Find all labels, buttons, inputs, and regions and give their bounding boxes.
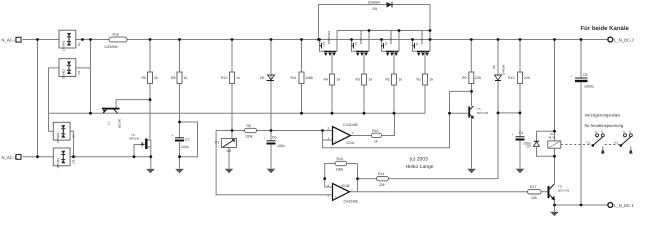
transistor T9 bbox=[129, 133, 151, 149]
resistor R8 bbox=[171, 72, 187, 84]
svg-text:IRF9530A: IRF9530A bbox=[420, 31, 424, 45]
resistor R16 bbox=[105, 33, 128, 49]
wire T8 emitter to bottom rail bbox=[555, 200, 608, 212]
svg-text:100k: 100k bbox=[245, 135, 253, 139]
transistor T2 bbox=[382, 31, 400, 57]
svg-text:D2: D2 bbox=[77, 70, 81, 74]
svg-text:100k: 100k bbox=[306, 76, 314, 80]
capacitor C4 bbox=[512, 131, 531, 146]
diode pair D1 bbox=[59, 30, 81, 51]
svg-text:R3: R3 bbox=[356, 78, 361, 82]
wire IC1B output up bbox=[350, 164, 377, 192]
diode pair D2 bbox=[59, 59, 81, 80]
ground under T8 bbox=[550, 212, 559, 216]
svg-text:1k: 1k bbox=[184, 76, 188, 80]
svg-text:1N5401: 1N5401 bbox=[62, 69, 66, 80]
svg-text:CA3240E: CA3240E bbox=[343, 123, 359, 127]
wire top rail net V+ bbox=[23, 39, 608, 41]
wire relay column bbox=[554, 40, 556, 185]
zener D5 bbox=[260, 75, 275, 81]
svg-text:T1: T1 bbox=[415, 42, 419, 46]
svg-text:2k: 2k bbox=[154, 76, 158, 80]
wire D2 branch bbox=[49, 40, 91, 132]
svg-text:R10: R10 bbox=[372, 129, 378, 133]
wire R9 column top bbox=[470, 40, 472, 73]
svg-text:1N5401: 1N5401 bbox=[56, 132, 60, 143]
resistor R15 bbox=[335, 157, 347, 172]
ground under C6 bbox=[267, 169, 276, 173]
svg-text:BC547B: BC547B bbox=[477, 111, 488, 115]
transistor T3 bbox=[352, 31, 370, 57]
wire T7 collector bbox=[116, 100, 150, 108]
svg-text:+: + bbox=[172, 134, 174, 138]
svg-text:0.05/5W: 0.05/5W bbox=[105, 45, 119, 49]
wire T5 base stub bbox=[450, 112, 469, 114]
svg-text:1k5: 1k5 bbox=[531, 196, 537, 200]
svg-text:T2: T2 bbox=[384, 42, 388, 46]
relay dashed link bbox=[561, 144, 621, 146]
wire reference loop to IC1B bbox=[216, 131, 332, 195]
resistor R5 bbox=[245, 124, 257, 139]
svg-text:R17: R17 bbox=[530, 185, 536, 189]
wire D5 column bbox=[270, 40, 272, 131]
svg-text:IC1B: IC1B bbox=[342, 184, 350, 188]
svg-text:K1: K1 bbox=[587, 141, 591, 145]
resistor R4 bbox=[324, 51, 341, 113]
label delay relay note bbox=[585, 113, 624, 129]
svg-text:R14: R14 bbox=[378, 172, 384, 176]
svg-text:R1: R1 bbox=[417, 78, 422, 82]
wire bypass top bbox=[319, 5, 431, 40]
svg-text:1k: 1k bbox=[430, 78, 434, 82]
svg-text:D7: D7 bbox=[527, 145, 532, 149]
svg-text:D1: D1 bbox=[77, 42, 81, 46]
wire reference net y130 bbox=[216, 130, 332, 132]
terminal N_AC-1 bbox=[2, 155, 22, 160]
transistor T8 bbox=[548, 184, 570, 200]
svg-text:T3: T3 bbox=[354, 42, 358, 46]
terminal N_AC-2 bbox=[2, 37, 22, 42]
svg-text:C7: C7 bbox=[185, 138, 190, 142]
wire C8 column bbox=[580, 40, 582, 206]
wire P1 stub bbox=[229, 131, 232, 169]
svg-text:1M: 1M bbox=[226, 149, 231, 153]
svg-text:40.31: 40.31 bbox=[548, 136, 556, 140]
svg-text:R6: R6 bbox=[142, 76, 147, 80]
label Fuer beide Kanaele bbox=[581, 25, 630, 32]
relay K1 bbox=[548, 132, 561, 148]
svg-text:R11: R11 bbox=[291, 76, 297, 80]
resistor R1 bbox=[417, 51, 434, 85]
diode pair D3 bbox=[53, 122, 75, 156]
relay contact K1.1 bbox=[587, 130, 605, 153]
resistor R10 bbox=[372, 129, 382, 144]
wire R12 column bbox=[231, 40, 233, 131]
svg-text:Verzögerungsrelais: Verzögerungsrelais bbox=[585, 113, 621, 118]
svg-text:Heiko Lange: Heiko Lange bbox=[406, 164, 434, 170]
wire cross link bbox=[498, 112, 520, 114]
svg-text:R5: R5 bbox=[247, 124, 252, 128]
svg-text:R13: R13 bbox=[508, 76, 514, 80]
svg-text:R12: R12 bbox=[221, 76, 227, 80]
wire D7 relay loop bbox=[537, 131, 555, 156]
ground under T5 bbox=[467, 169, 476, 173]
svg-text:IRFD45: IRFD45 bbox=[129, 136, 140, 140]
resistor R17 bbox=[528, 185, 542, 200]
resistor R9 bbox=[462, 72, 481, 84]
svg-text:T4: T4 bbox=[322, 42, 326, 46]
wire D8 column bbox=[389, 40, 499, 179]
terminal L_N_DC-1 bbox=[608, 203, 635, 208]
svg-text:IRF9530A: IRF9530A bbox=[389, 31, 393, 45]
svg-text:1k: 1k bbox=[369, 78, 373, 82]
svg-text:1N4004: 1N4004 bbox=[368, 0, 380, 4]
op-amp IC1A bbox=[328, 123, 359, 145]
transistor T1 bbox=[413, 31, 431, 57]
svg-text:N_AC-2: N_AC-2 bbox=[2, 38, 18, 43]
relay contact K1.2 bbox=[615, 130, 633, 153]
wire bottom-left rail bbox=[23, 156, 151, 158]
diode D9 bbox=[368, 0, 393, 11]
svg-text:+: + bbox=[571, 74, 573, 78]
svg-text:1k: 1k bbox=[337, 78, 341, 82]
capacitor C7 bbox=[172, 134, 190, 150]
svg-text:-: - bbox=[335, 186, 336, 190]
wire R8 column bbox=[179, 40, 181, 138]
svg-text:T7: T7 bbox=[108, 121, 112, 125]
wire R9 to T5 bbox=[450, 84, 472, 169]
svg-text:+: + bbox=[335, 195, 337, 199]
svg-text:D9: D9 bbox=[373, 7, 378, 11]
transistor T4 bbox=[320, 31, 338, 57]
wire C7 loop bbox=[180, 122, 198, 169]
svg-text:C8: C8 bbox=[583, 73, 588, 77]
wire T8 base bbox=[358, 191, 549, 193]
diode D7 bbox=[527, 141, 540, 148]
svg-text:(c) 2003: (c) 2003 bbox=[410, 157, 429, 163]
resistor R14 bbox=[377, 172, 389, 187]
svg-text:100k: 100k bbox=[336, 168, 344, 172]
wire R6 column bbox=[149, 40, 151, 141]
svg-text:BD140: BD140 bbox=[118, 118, 122, 128]
ground under P1 bbox=[225, 169, 234, 173]
svg-text:R2: R2 bbox=[386, 78, 391, 82]
svg-text:+: + bbox=[264, 136, 266, 140]
ground under C4 bbox=[516, 169, 525, 173]
svg-text:+: + bbox=[512, 133, 514, 137]
resistor R12 bbox=[221, 72, 240, 84]
svg-text:D8: D8 bbox=[492, 65, 496, 69]
svg-text:P1: P1 bbox=[215, 141, 219, 145]
svg-text:-: - bbox=[335, 129, 336, 133]
wire IC1A plus input net bbox=[323, 91, 450, 147]
svg-text:1k: 1k bbox=[374, 140, 378, 144]
wire C6 stub bbox=[270, 131, 272, 169]
svg-text:R15: R15 bbox=[337, 157, 343, 161]
wire R13 C4 column bbox=[519, 40, 521, 169]
wire R15 feedback bbox=[325, 164, 358, 188]
svg-text:CA3240E: CA3240E bbox=[344, 199, 360, 203]
svg-text:R9: R9 bbox=[462, 76, 467, 80]
resistor R6 bbox=[142, 72, 158, 84]
svg-text:BC547B: BC547B bbox=[558, 188, 569, 192]
trimmer P1 bbox=[215, 139, 237, 154]
wire left drop column bbox=[37, 40, 39, 157]
transistor T7 bbox=[102, 108, 122, 128]
resistor R3 bbox=[356, 51, 373, 113]
diode pair D4 bbox=[53, 148, 75, 169]
svg-text:N_AC-1: N_AC-1 bbox=[2, 155, 18, 160]
svg-text:1N5401: 1N5401 bbox=[62, 40, 66, 51]
wire op-amp out to gate bus bbox=[351, 113, 395, 135]
svg-text:K1: K1 bbox=[615, 141, 619, 145]
terminal L_N_DC-2 bbox=[608, 37, 635, 42]
svg-text:IC1A: IC1A bbox=[347, 141, 355, 145]
svg-text:D5: D5 bbox=[260, 76, 265, 80]
wire drain chain bbox=[337, 31, 430, 40]
svg-text:220u: 220u bbox=[181, 145, 189, 149]
svg-text:220: 220 bbox=[475, 76, 481, 80]
wire T9 gate tie bbox=[134, 145, 145, 157]
transistor T5 bbox=[468, 106, 488, 119]
ground under C7 bbox=[175, 169, 184, 173]
svg-text:1N4004: 1N4004 bbox=[502, 64, 506, 75]
svg-text:1k: 1k bbox=[236, 76, 240, 80]
diode D8 bbox=[492, 64, 506, 80]
wire R11 column bbox=[301, 40, 303, 114]
svg-text:L_N_DC-1: L_N_DC-1 bbox=[614, 203, 634, 208]
label copyright bbox=[406, 157, 434, 171]
svg-text:D4: D4 bbox=[71, 159, 75, 163]
wire T9 output column bbox=[150, 147, 152, 169]
svg-text:IRF9530A: IRF9530A bbox=[359, 31, 363, 45]
svg-text:C6: C6 bbox=[272, 136, 277, 140]
svg-text:IRF9530A: IRF9530A bbox=[327, 31, 331, 45]
svg-text:1k: 1k bbox=[399, 78, 403, 82]
capacitor C6 bbox=[264, 136, 285, 149]
resistor R11 bbox=[291, 72, 314, 84]
wire gate bus bbox=[49, 85, 426, 113]
svg-text:R8: R8 bbox=[171, 76, 176, 80]
ground under T9 bbox=[146, 169, 155, 173]
svg-text:R4: R4 bbox=[324, 78, 329, 82]
svg-text:Für beide Kanäle: Für beide Kanäle bbox=[581, 25, 630, 32]
svg-text:+: + bbox=[335, 139, 337, 143]
svg-text:1000u: 1000u bbox=[584, 85, 594, 89]
op-amp IC1B bbox=[328, 184, 360, 204]
svg-text:R16: R16 bbox=[113, 33, 119, 37]
svg-text:C4: C4 bbox=[519, 131, 524, 135]
svg-text:L_N_DC-2: L_N_DC-2 bbox=[614, 37, 634, 42]
svg-text:22k: 22k bbox=[379, 183, 385, 187]
svg-text:für Anodenspannung: für Anodenspannung bbox=[585, 123, 624, 128]
svg-text:220: 220 bbox=[524, 76, 530, 80]
svg-text:100n: 100n bbox=[277, 144, 285, 148]
capacitor C8 bbox=[571, 73, 594, 89]
resistor R2 bbox=[386, 51, 403, 113]
resistor R13 bbox=[508, 72, 530, 84]
svg-text:1N5401: 1N5401 bbox=[56, 158, 60, 169]
